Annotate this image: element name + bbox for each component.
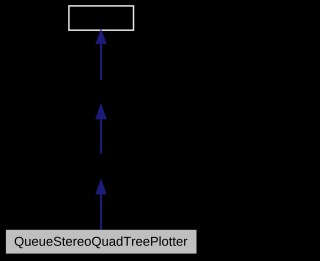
wire: inheritance arrow 3 shaft [100,194,102,230]
node: top base-class box (empty outline) [69,6,134,30]
node: QueueStereoQuadTreePlotter box [6,230,197,254]
wire: inheritance arrow 1 shaft [100,44,102,81]
label: QueueStereoQuadTreePlotter [15,236,188,248]
inheritance arrow 2 head [95,103,106,120]
wire: inheritance arrow 2 shaft [100,119,102,154]
inheritance arrow 1 head [95,29,106,44]
inheritance arrow 3 head [95,178,106,194]
